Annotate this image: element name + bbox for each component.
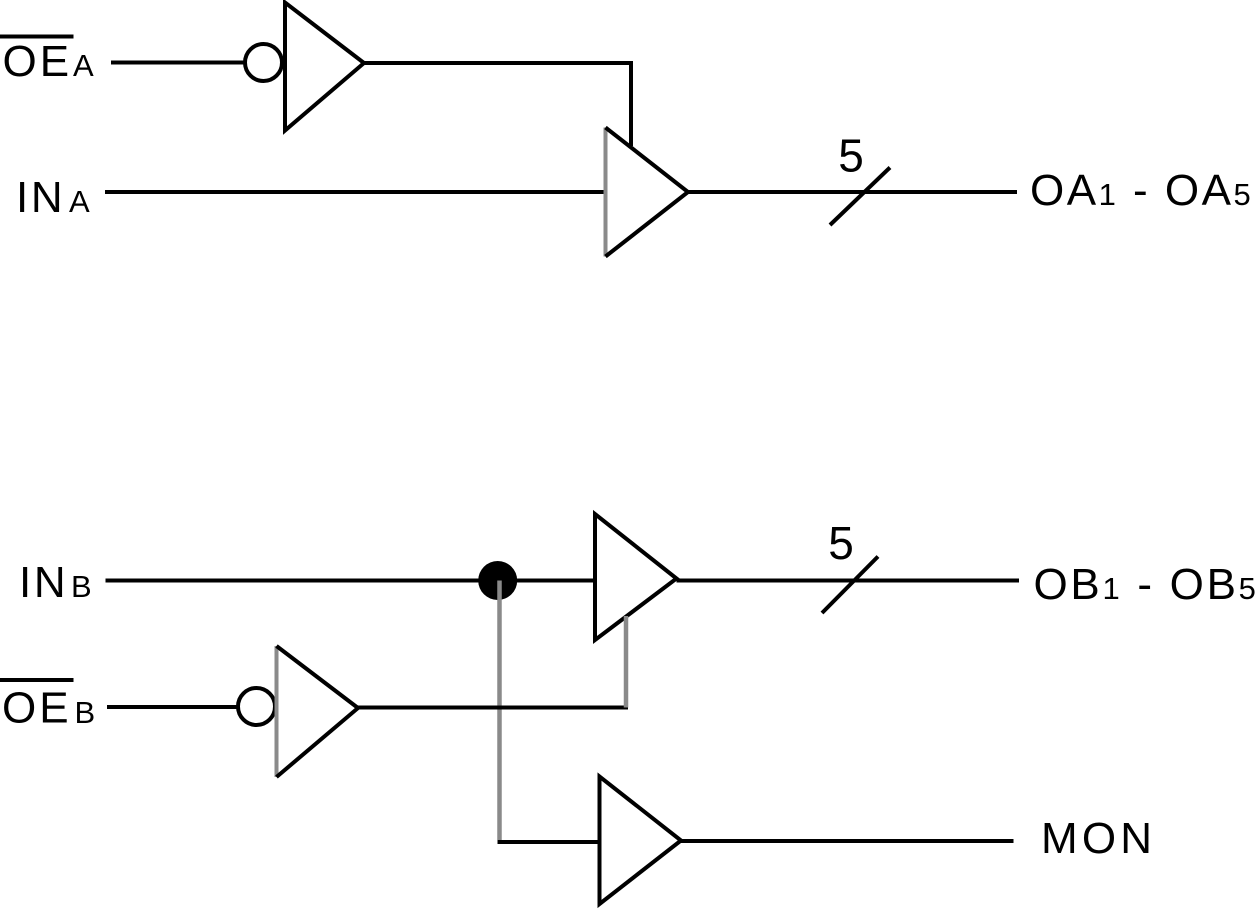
svg-text:5: 5 [828, 517, 854, 569]
svg-text:OE: OE [3, 37, 73, 86]
wire node to MON buffer vertical [497, 581, 502, 841]
net label INA [16, 173, 90, 222]
wire U1 output horizontal [364, 61, 633, 65]
buffer U3 (bank B output buffer) [595, 514, 677, 640]
net label OEA (active-low, overline) [0, 37, 94, 87]
svg-text:OE: OE [2, 684, 72, 733]
wire OEB input to bubble [107, 705, 237, 709]
wire U4 output horizontal [358, 706, 628, 710]
svg-text:B: B [71, 569, 92, 604]
junction node INB [478, 561, 517, 600]
wire MON output [681, 839, 1014, 843]
inverter U1 input bubble [245, 44, 282, 81]
svg-text:IN: IN [16, 173, 65, 222]
svg-text:OB1 - OB5: OB1 - OB5 [1034, 560, 1256, 609]
svg-text:5: 5 [838, 130, 864, 182]
inverter U4 input bubble [238, 688, 275, 725]
inverter U1 (enable A) [285, 3, 364, 131]
bus width slash A [830, 168, 890, 226]
buffer U5 (monitor output buffer) [600, 777, 682, 905]
svg-text:IN: IN [19, 558, 68, 607]
net label INB [19, 558, 92, 607]
buffer U2 (bank A output buffer) [606, 128, 689, 257]
svg-text:MON: MON [1041, 814, 1156, 863]
wire node feed to MON buffer horizontal [498, 840, 602, 844]
svg-text:A: A [69, 184, 90, 219]
wire OB output bus [677, 579, 1020, 583]
wire OA output bus [688, 190, 1017, 194]
bus width slash B [822, 557, 878, 614]
wire OEA input to bubble [111, 61, 245, 65]
svg-text:B: B [75, 695, 96, 730]
wire INB input [106, 579, 597, 583]
wire enable B vertical into buffer U3 [624, 616, 629, 708]
svg-text:A: A [73, 48, 94, 83]
inverter U4 (enable B) [277, 646, 359, 777]
wire INA input [105, 190, 607, 194]
net label OEB (active-low, overline) [0, 680, 95, 733]
wire enable A vertical into buffer U2 [629, 63, 633, 146]
svg-text:OA1 - OA5: OA1 - OA5 [1030, 166, 1253, 215]
